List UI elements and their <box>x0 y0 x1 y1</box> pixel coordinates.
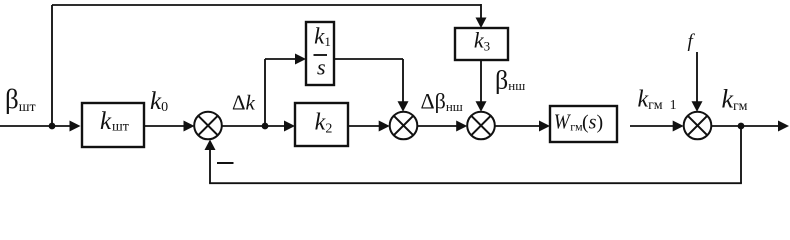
block k1/s integrator <box>306 22 334 85</box>
wire branch up to k1/s <box>265 54 306 127</box>
block k_sht <box>82 103 144 147</box>
wire S1 to k2 <box>222 121 295 132</box>
wire top feedforward line to k3 <box>52 4 481 6</box>
wire input beta_sht to block k_sht <box>0 121 81 132</box>
summer S2 <box>390 112 418 140</box>
block k2 <box>295 103 348 146</box>
wire S4 to output <box>711 121 789 132</box>
wire k3 to summer S3 <box>476 60 487 112</box>
wire W to summer S4 (with small gap at block) <box>630 121 684 132</box>
svg-text:шт: шт <box>112 120 129 135</box>
svg-text:Δk: Δk <box>232 91 256 115</box>
svg-text:s: s <box>317 55 326 80</box>
wire S2 to summer S3 <box>417 121 467 132</box>
summer S3 <box>467 112 495 140</box>
wire k1/s output to summer S2 <box>334 59 409 112</box>
wire S3 to block W <box>495 121 550 132</box>
wire feedback from output to S1 <box>205 126 742 183</box>
svg-text:W: W <box>554 110 572 134</box>
wire junction up to top line <box>51 5 53 126</box>
wire f into summer S4 <box>692 52 703 112</box>
summer S4 <box>684 112 712 140</box>
wire k2 to summer S2 <box>348 121 390 132</box>
node branch dot <box>262 123 269 130</box>
wire drop into k3 <box>476 4 487 28</box>
summer S1 <box>194 112 222 140</box>
node input junction dot <box>49 123 56 130</box>
block W_gm(s) <box>550 106 617 142</box>
wire k_sht to summer S1 <box>144 121 195 132</box>
svg-text:(s): (s) <box>582 112 603 134</box>
svg-text:k: k <box>100 108 112 135</box>
label minus at S1 feedback <box>217 162 234 164</box>
block k3 <box>455 27 508 60</box>
node output junction dot <box>738 123 745 130</box>
